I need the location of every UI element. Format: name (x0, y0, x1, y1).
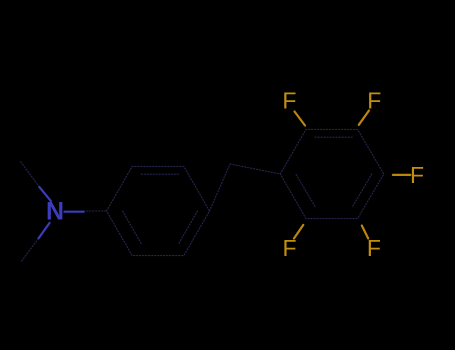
right benzene ring (pentafluorophenyl, faint carbon bonds) (280, 129, 384, 218)
wire: upper N-methyl bond dark half (21, 162, 40, 187)
wire: upper N-methyl bond blue half (39, 187, 51, 201)
wire: N-C(ring) bond blue half (65, 211, 84, 213)
wire: lower N-methyl bond blue half (39, 223, 50, 239)
wire: C-F bond top-left (295, 112, 306, 126)
svg-text:F: F (282, 88, 296, 114)
wire: C-F bond right (393, 174, 410, 176)
left benzene ring (aniline ring, faint carbon bonds) (107, 166, 210, 255)
bridge CH2 bonds (faint) (210, 164, 281, 211)
wire: C-F bond top-right (359, 111, 369, 125)
svg-text:F: F (410, 162, 424, 188)
svg-text:N: N (46, 198, 64, 226)
wire: N-C(ring) bond dark half (84, 210, 107, 212)
wire: lower N-methyl bond dark half (21, 238, 39, 262)
wire: C-F bond bottom-right (362, 226, 368, 239)
wire: C-F bond bottom-left (294, 225, 303, 239)
